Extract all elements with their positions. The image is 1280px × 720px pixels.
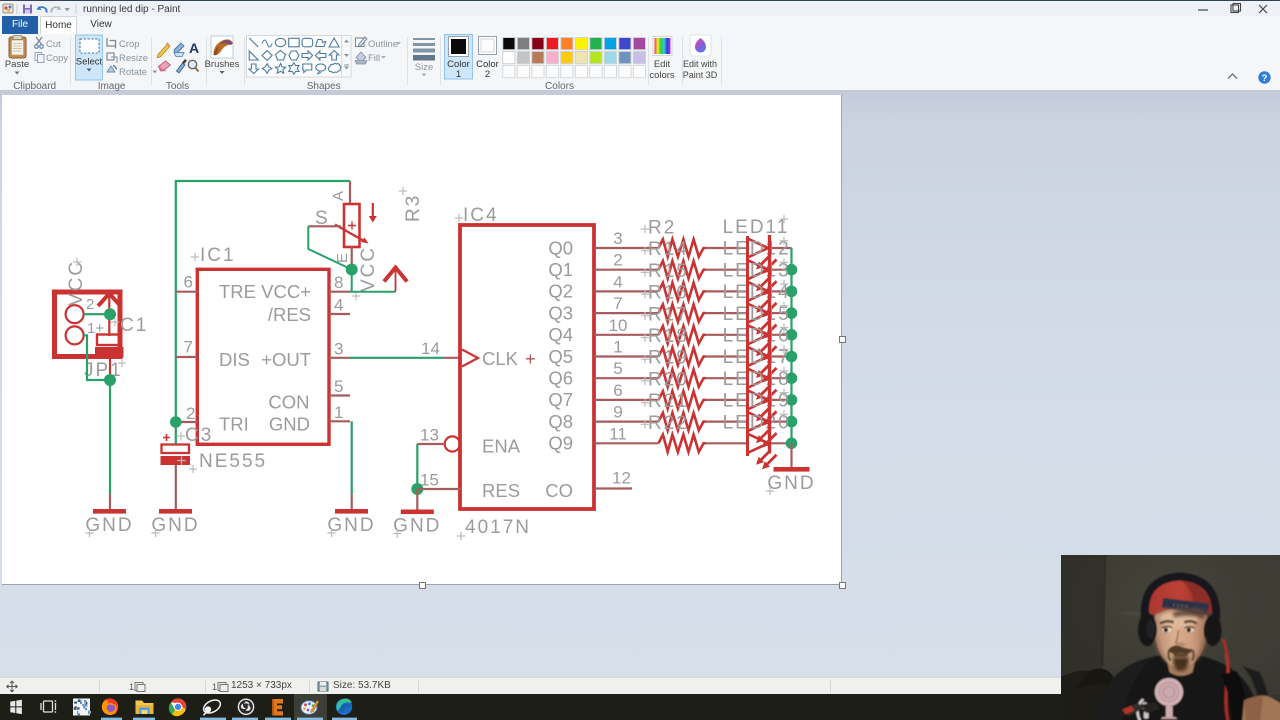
junction LED bus row 1 <box>786 264 798 276</box>
IC4 pin name Q5 <box>548 346 573 367</box>
svg-text:GND: GND <box>767 473 815 494</box>
svg-text:CON: CON <box>268 392 309 413</box>
svg-text:Q0: Q0 <box>548 237 573 258</box>
IC1 value NE555 <box>189 451 267 473</box>
svg-text:JP1: JP1 <box>84 360 123 381</box>
LED LED18 <box>723 367 791 426</box>
IC1 pin 2 stub <box>176 404 198 423</box>
svg-text:2: 2 <box>86 296 94 313</box>
svg-text:CO: CO <box>545 480 573 501</box>
wire LED16 cathode to bus <box>770 355 792 357</box>
IC1 pin 5 stub <box>329 377 350 396</box>
IC4 pin name Q4 <box>548 324 573 345</box>
LED cathode bus wire <box>790 248 792 443</box>
potentiometer R3 <box>335 181 369 264</box>
connector JP1 <box>55 292 127 381</box>
wire pin6 to pin2 bus <box>176 181 350 422</box>
junction LED bus row 5 <box>786 351 798 363</box>
LED LED13 <box>723 258 791 317</box>
junction LED bus row 3 <box>786 307 798 319</box>
IC1 pin name TRE <box>219 281 256 302</box>
IC4 pin 4 stub (Q2) <box>594 272 659 291</box>
LED anode rail <box>746 236 749 456</box>
wire R21 to LED <box>706 421 748 423</box>
IC1 pin name GND <box>269 414 310 435</box>
svg-text:Fill: Fill <box>368 53 380 64</box>
junction (R3.E / wiper) <box>346 264 358 276</box>
IC4 RES stub pin 15 <box>417 471 461 490</box>
power VCC arrow (rail) <box>384 267 407 292</box>
IC1 pin name plusOUT <box>261 349 311 370</box>
junction (VCC / C1) <box>104 308 116 320</box>
JP1 pin 1 <box>66 320 105 344</box>
IC4 pin name Q2 <box>548 281 573 302</box>
LED LED16 <box>723 323 791 382</box>
IC4 pin 5 stub (Q6) <box>594 359 659 378</box>
svg-text:Q2: Q2 <box>548 281 573 302</box>
junction (pin2/C3) <box>170 416 182 428</box>
svg-text:LED20: LED20 <box>723 412 791 433</box>
svg-text:R20: R20 <box>648 369 689 390</box>
svg-text:2: 2 <box>613 251 622 270</box>
resistor R19 <box>641 348 706 387</box>
svg-text:Q5: Q5 <box>548 346 573 367</box>
resistor R20 <box>641 369 706 408</box>
Crop / Resize / Rotate <box>107 38 157 78</box>
svg-text:1: 1 <box>456 69 461 80</box>
svg-text:Q4: Q4 <box>548 324 573 345</box>
svg-text:VCC: VCC <box>66 260 87 306</box>
wire OUT net (pin3 to CLK) <box>350 339 461 358</box>
wire C3 to GND <box>175 465 177 509</box>
IC4 pin 9 stub (Q8) <box>594 403 659 422</box>
capacitor C1 <box>95 315 148 358</box>
wire LED12 cathode to bus <box>770 269 792 271</box>
Edit with Paint 3D <box>683 35 718 80</box>
Edit colors <box>649 37 675 82</box>
junction LED bus row 4 <box>786 329 798 341</box>
svg-text:R21: R21 <box>648 391 689 412</box>
svg-text:Q3: Q3 <box>548 302 573 323</box>
svg-text:NE555: NE555 <box>199 451 267 472</box>
junction (RES) <box>411 483 423 495</box>
svg-text:1: 1 <box>212 682 217 692</box>
Select button (highlighted) <box>76 35 103 80</box>
svg-text:4: 4 <box>334 296 343 315</box>
wire R16 to LED <box>706 312 748 314</box>
counter IC4 body <box>455 205 594 509</box>
svg-text:11: 11 <box>609 424 627 443</box>
wire LED14 cathode to bus <box>770 312 792 314</box>
wire R15 to LED <box>706 290 748 292</box>
wire RES to GND <box>416 489 418 510</box>
ground (C3) <box>151 509 199 537</box>
wire LED15 cathode to bus <box>770 334 792 336</box>
svg-text:6: 6 <box>613 381 622 400</box>
svg-text:VCC: VCC <box>358 246 379 292</box>
resistor R2 <box>641 218 706 257</box>
svg-text:R19: R19 <box>648 348 689 369</box>
timer IC1 NE555 body <box>191 245 329 444</box>
wire C1- down <box>109 358 111 375</box>
R3 name label <box>399 187 424 222</box>
IC1 pin 4 stub <box>329 296 350 315</box>
IC1 pin 8 stub <box>329 273 350 292</box>
svg-text:LED16: LED16 <box>723 326 791 347</box>
svg-text:1: 1 <box>613 338 622 357</box>
svg-text:LED11: LED11 <box>723 217 790 238</box>
svg-text:+: + <box>525 348 536 369</box>
IC1 pin name DIS <box>219 349 250 370</box>
IC4 pin name Q7 <box>548 389 573 410</box>
IC4 pin name Q6 <box>548 368 573 389</box>
resistor R16 <box>641 283 706 322</box>
svg-text:Select: Select <box>76 57 103 68</box>
R3 pin E label <box>334 253 351 263</box>
svg-text:IC1: IC1 <box>200 245 236 266</box>
svg-text:12: 12 <box>612 469 631 488</box>
wire pin2 to C3 <box>175 422 177 444</box>
svg-text:LED12: LED12 <box>723 239 791 260</box>
Tools: pencil,fill,A / eraser,picker,magnifier <box>157 40 199 73</box>
svg-text:Edit: Edit <box>654 59 671 70</box>
resistor R21 <box>641 391 706 430</box>
svg-text:?: ? <box>1262 73 1268 84</box>
ground (ENA/RES) <box>393 510 441 538</box>
ground (JP1) <box>85 509 133 537</box>
svg-text:LED13: LED13 <box>723 260 791 281</box>
svg-text:7: 7 <box>613 294 622 313</box>
svg-text:Q1: Q1 <box>548 259 573 280</box>
Cut / Copy <box>35 37 69 64</box>
LED LED12 <box>723 237 791 296</box>
svg-text:/RES: /RES <box>268 304 311 325</box>
LED cathode bar rail <box>768 235 771 454</box>
svg-text:Q7: Q7 <box>548 389 573 410</box>
svg-text:+OUT: +OUT <box>261 349 311 370</box>
wire LED17 cathode to bus <box>770 377 792 379</box>
svg-text:5: 5 <box>613 359 622 378</box>
LED LED19 <box>723 388 791 447</box>
wire pin8 VCC rail <box>350 291 396 293</box>
svg-text:Paint 3D: Paint 3D <box>683 70 718 80</box>
svg-text:IC4: IC4 <box>463 205 499 226</box>
wire R3.S wiper <box>308 226 351 269</box>
power VCC arrow (C1 node) <box>98 294 121 337</box>
svg-text:13: 13 <box>420 426 439 445</box>
IC4 pin name Q9 <box>548 433 573 454</box>
svg-text:GND: GND <box>269 414 310 435</box>
net label VCC (rail) <box>352 246 379 300</box>
svg-text:Cut: Cut <box>46 39 61 50</box>
svg-text:2: 2 <box>186 404 195 423</box>
R3 adjust arrow <box>369 203 377 223</box>
capacitor C3 <box>161 425 214 465</box>
wire bus to GND <box>790 443 792 467</box>
net label VCC (JP1) <box>66 258 87 306</box>
svg-text:Q6: Q6 <box>548 368 573 389</box>
LED LED17 <box>723 345 791 404</box>
svg-text:4: 4 <box>613 272 622 291</box>
Color 1 (selected) <box>445 35 473 81</box>
Size <box>413 38 435 77</box>
svg-text:7: 7 <box>184 338 193 357</box>
resistor R18 <box>641 326 706 365</box>
svg-text:TRE: TRE <box>219 281 256 302</box>
Shapes grid panel <box>247 36 352 78</box>
LED LED11 <box>723 215 790 274</box>
JP1 pin 2 <box>66 296 95 323</box>
svg-text:3: 3 <box>613 229 622 248</box>
svg-text:A: A <box>189 40 199 56</box>
IC1 pin name VCCplus <box>261 281 311 302</box>
junction LED bus row 6 <box>786 372 798 384</box>
svg-text:ENA: ENA <box>482 436 521 457</box>
wire LED18 cathode to bus <box>770 399 792 401</box>
resistor R14 <box>641 239 706 278</box>
svg-text:R3: R3 <box>403 194 424 222</box>
svg-text:2: 2 <box>485 69 490 80</box>
svg-text:DIS: DIS <box>219 349 250 370</box>
IC4 pin 3 stub (Q0) <box>594 229 659 248</box>
wire E to VCC rail <box>351 270 353 292</box>
IC4 pin 6 stub (Q7) <box>594 381 659 400</box>
svg-text:Paste: Paste <box>5 59 29 70</box>
wire LED11 cathode to bus <box>770 247 792 249</box>
IC1 pin 6 stub <box>176 273 198 292</box>
IC1 pin 1 stub <box>329 403 350 422</box>
IC4 value 4017N <box>457 517 531 540</box>
resistor R15 <box>641 261 706 300</box>
svg-text:Size: Size <box>415 62 433 73</box>
junction LED bus row 8 <box>786 416 798 428</box>
junction LED bus row 7 <box>786 394 798 406</box>
svg-text:Q8: Q8 <box>548 411 573 432</box>
Paste button <box>5 36 29 75</box>
R3 pin A label <box>330 191 347 201</box>
IC4 pin CO <box>545 480 573 501</box>
svg-text:R22: R22 <box>648 413 689 434</box>
wire IC1 pin1 to GND <box>351 421 353 509</box>
svg-text:TRI: TRI <box>219 414 249 435</box>
svg-text:Copy: Copy <box>46 53 68 64</box>
svg-text:14: 14 <box>421 339 440 358</box>
IC4 pin name Q3 <box>548 302 573 323</box>
wire ENA to RES <box>416 444 418 489</box>
wire R22 to LED <box>706 442 748 444</box>
wire R14 to LED <box>706 269 748 271</box>
svg-text:8: 8 <box>334 273 343 292</box>
svg-text:LED17: LED17 <box>723 347 791 368</box>
svg-text:R2: R2 <box>648 218 676 239</box>
svg-text:1: 1 <box>129 682 134 692</box>
svg-text:RES: RES <box>482 480 520 501</box>
IC4 pin 7 stub (Q3) <box>594 294 659 313</box>
svg-text:R16: R16 <box>648 283 689 304</box>
wire R18 to LED <box>706 355 748 357</box>
wire R20 to LED <box>706 399 748 401</box>
resistor R17 <box>641 304 706 343</box>
svg-text:LED18: LED18 <box>723 369 791 390</box>
svg-text:3: 3 <box>334 339 343 358</box>
wire JP1.2 to VCC node <box>84 313 110 315</box>
IC4 pin name Q1 <box>548 259 573 280</box>
svg-text:Crop: Crop <box>119 39 140 50</box>
svg-text:Resize: Resize <box>119 53 148 64</box>
wire LED13 cathode to bus <box>770 290 792 292</box>
svg-text:9: 9 <box>613 403 622 422</box>
svg-text:R15: R15 <box>648 261 689 282</box>
svg-text:A: A <box>330 191 347 201</box>
IC4 ENA bubble pin 13 <box>417 426 460 452</box>
IC4 pin RES <box>482 480 520 501</box>
svg-text:C3: C3 <box>185 425 213 446</box>
IC1 pin 7 stub <box>176 338 198 358</box>
svg-text:VCC+: VCC+ <box>261 281 311 302</box>
svg-text:6: 6 <box>184 273 193 292</box>
wire R19 to LED <box>706 377 748 379</box>
junction LED bus row 9 <box>786 438 798 450</box>
resistor R22 <box>641 413 706 452</box>
IC1 pin name TRI <box>219 414 249 435</box>
svg-text:Brushes: Brushes <box>205 59 240 70</box>
ground (LED bus) <box>766 467 816 495</box>
svg-text:Q9: Q9 <box>548 433 573 454</box>
wire JP1.1 to GND net <box>84 335 110 380</box>
wire to GND (left) <box>109 380 111 509</box>
svg-text:LED19: LED19 <box>723 391 791 412</box>
svg-text:CLK: CLK <box>482 348 519 369</box>
svg-text:R17: R17 <box>648 304 689 325</box>
wire LED20 cathode to bus <box>770 442 792 444</box>
svg-text:LED14: LED14 <box>723 282 791 303</box>
svg-text:Edit with: Edit with <box>683 59 717 69</box>
IC4 CLK input <box>462 348 536 369</box>
wire LED19 cathode to bus <box>770 421 792 423</box>
svg-text:10: 10 <box>609 316 628 335</box>
svg-text:5: 5 <box>334 377 343 396</box>
IC4 pin name Q0 <box>548 237 573 258</box>
LED LED15 <box>723 302 791 361</box>
IC4 pin 2 stub (Q1) <box>594 251 659 270</box>
svg-text:colors: colors <box>649 70 675 81</box>
IC1 pin name RES <box>268 304 311 325</box>
svg-text:15: 15 <box>420 471 439 490</box>
svg-text:C1: C1 <box>120 315 148 336</box>
IC1 pin name CON <box>268 392 309 413</box>
svg-text:4017N: 4017N <box>465 517 531 538</box>
LED LED20 <box>723 410 791 469</box>
svg-text:Rotate: Rotate <box>119 67 147 78</box>
IC4 pin 11 stub (Q9) <box>594 424 659 443</box>
IC4 pin 1 stub (Q5) <box>594 338 659 357</box>
IC4 pin name Q8 <box>548 411 573 432</box>
IC4 CO stub pin 12 <box>594 469 632 489</box>
junction (C1- / JP1.1) <box>104 374 116 386</box>
svg-text:Outline: Outline <box>368 39 398 50</box>
IC4 pin ENA <box>482 436 521 457</box>
IC1 pin 3 stub <box>329 339 350 358</box>
svg-text:R14: R14 <box>648 239 689 260</box>
svg-text:LED15: LED15 <box>723 304 791 325</box>
LED LED14 <box>723 280 791 339</box>
Brushes <box>205 36 240 74</box>
wire R17 to LED <box>706 334 748 336</box>
junction LED bus row 2 <box>786 286 798 298</box>
R3 pin S label <box>315 208 330 229</box>
Outline / Fill <box>355 37 401 64</box>
ground (IC1 pin1) <box>327 509 375 537</box>
svg-text:R18: R18 <box>648 326 689 347</box>
svg-text:1: 1 <box>334 403 343 422</box>
wire R2 to LED <box>706 247 748 249</box>
IC4 pin 10 stub (Q4) <box>594 316 659 335</box>
Color 2 <box>476 37 499 81</box>
